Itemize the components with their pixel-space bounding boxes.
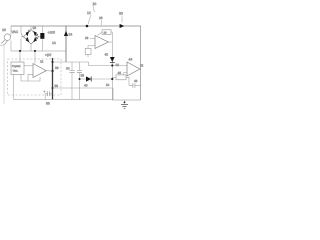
wire bottom right bbox=[112, 99, 140, 101]
svg-text:42: 42 bbox=[105, 53, 109, 57]
node thick-output bbox=[51, 70, 53, 72]
dashed module box bbox=[8, 59, 62, 95]
capacitor C3 bbox=[129, 83, 141, 88]
wire J1 stub down bbox=[19, 51, 21, 62]
diode D2 bbox=[86, 76, 91, 81]
wire U1 output bbox=[108, 41, 112, 43]
op-amp U1 bbox=[85, 36, 108, 58]
wire outer left faint bbox=[3, 45, 5, 104]
wire osc out bbox=[24, 65, 33, 67]
capacitor C2 bbox=[44, 90, 53, 100]
node mid-H4 bbox=[111, 78, 113, 80]
node thick-H3 bbox=[52, 61, 54, 63]
svg-text:58: 58 bbox=[55, 84, 59, 88]
wire U3 output bbox=[46, 70, 52, 72]
AC plug P1 bbox=[0, 34, 11, 45]
node J2 bbox=[34, 50, 36, 52]
resistor R2 bbox=[112, 75, 129, 86]
svg-text:12: 12 bbox=[87, 11, 91, 15]
wire top rail bbox=[11, 25, 141, 27]
node H4 left bbox=[79, 78, 81, 80]
wire mid vertical bbox=[111, 32, 113, 100]
wire J2 stub down bbox=[34, 51, 36, 64]
svg-text:40: 40 bbox=[84, 84, 88, 88]
wire H4 diode line bbox=[80, 78, 113, 80]
leader 26 tick bbox=[101, 20, 103, 25]
ground bbox=[121, 100, 128, 108]
leader 10 bbox=[93, 6, 95, 13]
capacitor branch Ca bbox=[70, 62, 75, 100]
svg-text:30: 30 bbox=[119, 12, 123, 16]
node mid-H3 bbox=[111, 64, 113, 66]
svg-text:16: 16 bbox=[33, 26, 37, 30]
wire rail H2 bbox=[11, 50, 66, 52]
bridge rectifier BR1 bbox=[24, 30, 39, 45]
wire bridge top stub bbox=[30, 26, 32, 30]
wire right side vertical bbox=[140, 26, 142, 100]
resistor R1 feedback bbox=[98, 30, 113, 36]
capacitor C1 electrolytic bbox=[40, 26, 44, 51]
svg-text:54: 54 bbox=[106, 83, 110, 87]
diode D1 down bbox=[110, 57, 115, 63]
wire bridge right stub bbox=[39, 36, 41, 38]
wire vertical with arrow bbox=[65, 26, 67, 62]
oscillator box OSC bbox=[11, 62, 24, 75]
arrow on rail bbox=[120, 24, 125, 28]
svg-text:+(47: +(47 bbox=[45, 53, 52, 57]
leader 12 bbox=[88, 15, 91, 24]
op-amp U2 bbox=[124, 62, 141, 77]
svg-text:56: 56 bbox=[46, 102, 50, 106]
svg-text:10: 10 bbox=[93, 2, 97, 6]
wire bus right step bbox=[112, 88, 114, 100]
wire bridge bottom stub bbox=[30, 44, 32, 51]
switch S1 bbox=[21, 26, 23, 51]
svg-text:18: 18 bbox=[2, 28, 6, 32]
svg-text:Osc.: Osc. bbox=[13, 69, 19, 72]
op-amp U3 buffer bbox=[33, 64, 46, 78]
svg-text:36: 36 bbox=[55, 66, 59, 70]
wire left L drop bbox=[13, 75, 15, 100]
wire rail H3 bbox=[53, 62, 128, 66]
svg-text:Crystal: Crystal bbox=[12, 65, 21, 68]
svg-text:VAC: VAC bbox=[12, 30, 19, 34]
arrow up on wire bbox=[64, 31, 68, 36]
svg-text:26: 26 bbox=[85, 36, 89, 40]
node rail junction bbox=[86, 25, 89, 28]
wire plug bottom stub bbox=[10, 41, 12, 52]
svg-text:26: 26 bbox=[99, 16, 103, 20]
svg-text:22: 22 bbox=[40, 60, 44, 64]
wire inv input stub bbox=[28, 74, 33, 81]
svg-text:+100: +100 bbox=[48, 31, 56, 35]
svg-text:14: 14 bbox=[52, 41, 56, 45]
svg-text:52: 52 bbox=[140, 64, 144, 68]
wire plug to rail bbox=[10, 26, 12, 34]
wire bridge left stub bbox=[21, 36, 24, 38]
svg-text:38: 38 bbox=[81, 74, 85, 78]
svg-text:44: 44 bbox=[129, 58, 133, 62]
svg-text:46: 46 bbox=[118, 71, 122, 75]
svg-text:+: + bbox=[44, 90, 46, 94]
node J1 bbox=[19, 50, 21, 52]
svg-text:32: 32 bbox=[116, 63, 120, 67]
node thick-H5 bbox=[52, 87, 54, 89]
svg-text:48: 48 bbox=[134, 79, 138, 83]
leader 30 bbox=[121, 16, 123, 23]
thick line node bus bbox=[52, 58, 54, 100]
wire bottom bus bbox=[14, 99, 114, 101]
svg-text:24: 24 bbox=[69, 33, 73, 37]
wire osc feedback bbox=[21, 75, 40, 82]
svg-text:34: 34 bbox=[66, 67, 70, 71]
wire rail H5 bbox=[53, 87, 114, 89]
capacitor branch Cb bbox=[77, 62, 82, 100]
